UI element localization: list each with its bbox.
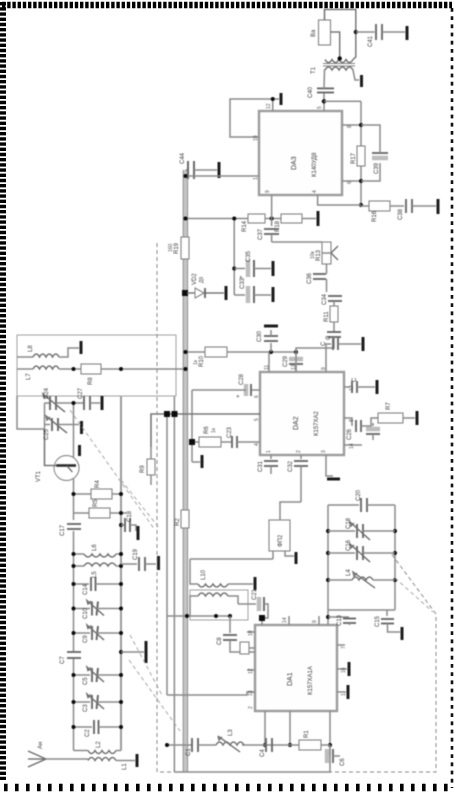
capacitor C2 (72, 720, 124, 737)
wire DA1 bottom grounds (337, 645, 349, 699)
capacitor C33 electrolytic (234, 277, 273, 303)
potentiometer R13 volume (310, 242, 338, 264)
trimmer C9 (72, 625, 124, 643)
wire DA2 pin14 (344, 444, 362, 446)
capacitor C30 with ground bar (257, 326, 278, 354)
wire detector to chain (296, 348, 334, 372)
trimmer C25 (44, 416, 82, 440)
wire L2 ends (74, 750, 122, 752)
capacitor C37 input coupling (258, 195, 279, 242)
wire oscillator main (17, 367, 188, 371)
capacitor C36 (307, 264, 327, 292)
capacitor C4 (260, 738, 272, 757)
capacitor C39 (361, 125, 388, 181)
IC DA3 (259, 111, 342, 195)
capacitor C27 with ground (78, 387, 102, 410)
capacitor C13 (328, 614, 356, 626)
capacitor C34 tone (322, 293, 342, 306)
wire DA1 right pins (289, 616, 319, 625)
trimmer C24 (43, 387, 84, 412)
IC DA2 (260, 372, 344, 455)
wire rail left drop (174, 745, 330, 772)
capacitor C34b (344, 418, 378, 440)
wire R10 branch (184, 350, 297, 354)
resistor divider R14 (184, 214, 266, 232)
capacitor C32 (288, 455, 308, 502)
wire input chain (165, 743, 332, 747)
wire DA1 pin stubs top (247, 632, 255, 692)
wire osc top link (17, 396, 45, 429)
capacitor C32a (321, 332, 341, 348)
capacitor C17 inline (60, 524, 81, 536)
capacitor C35 electrolytic (232, 217, 273, 296)
wire volume feed (272, 241, 322, 243)
wire gang bus B (120, 396, 122, 751)
wire rail AGC (167, 414, 255, 695)
resistor R16 (318, 195, 390, 222)
capacitor C38 with ground (390, 199, 438, 220)
capacitor C40 output coupling (308, 86, 334, 98)
wire DA3 output node (322, 93, 361, 112)
board outline dashed (157, 243, 436, 772)
wire filter output (280, 502, 301, 520)
coil shield box L7 L8 (17, 335, 176, 396)
trimmer C10 (72, 601, 124, 620)
wire IF frame bottom (393, 505, 397, 610)
wire IF frame top (326, 505, 330, 625)
ground L8 (59, 341, 81, 357)
wire L9 bottom (228, 596, 238, 604)
IC DA1 (255, 625, 337, 711)
inductor L3 variable (216, 729, 244, 752)
wire filter input (190, 551, 273, 559)
wire L9 top (190, 596, 198, 616)
transformer T1 (311, 60, 355, 75)
wire speaker loop (325, 10, 356, 60)
capacitor C29 detector (283, 350, 303, 372)
mech link dashed five (395, 578, 433, 612)
capacitor C19 to board edge (121, 548, 159, 571)
resistor R5 (74, 499, 128, 518)
capacitor C14 (72, 577, 124, 595)
wire speaker centre tap (330, 32, 342, 61)
ground near R6 (192, 455, 202, 468)
inductor L5 (72, 563, 124, 578)
resistor divider R18 (265, 211, 318, 232)
trimmer C3 (72, 694, 124, 712)
coil shield box L9 (190, 590, 248, 620)
inductor L8 (17, 345, 59, 357)
mech link dashed two (121, 480, 160, 529)
trimmer C16 (328, 539, 395, 562)
inductor L7 (26, 366, 59, 380)
wire supply rail +V thick (183, 170, 187, 772)
capacitor C33b with ground (326, 335, 363, 372)
resistor R11 (324, 306, 338, 332)
wire DA1 left pins (263, 711, 330, 747)
inductor L9 (198, 593, 228, 596)
resistor R8 (81, 364, 101, 385)
inductor L10 (198, 569, 228, 587)
loudspeaker BA1 (311, 20, 331, 45)
mech link dashed three (130, 635, 162, 695)
antenna WA1 (28, 742, 88, 767)
resistor R17 (351, 146, 365, 166)
mech link dashed four (129, 660, 180, 731)
ground VT1 collector (78, 445, 81, 456)
trimmer C18b (328, 517, 395, 540)
wire DA1 pin stub right (261, 621, 263, 625)
capacitor C28 AGC (192, 373, 260, 398)
capacitor C17b with ground (375, 610, 402, 640)
wire DA3 supply pin (184, 174, 260, 178)
capacitor C44 with ground (180, 152, 219, 179)
capacitor C24 gray (366, 423, 380, 440)
resistor R2 (175, 510, 189, 528)
wire IF feed (167, 614, 232, 618)
resistor R6 (195, 426, 221, 447)
capacitor C22 small (240, 642, 255, 654)
inductor L2 (88, 741, 116, 754)
wire R6 feed (189, 390, 195, 462)
resistor R9 (140, 447, 155, 485)
trimmer C5 (72, 667, 124, 685)
wire rail mid (173, 396, 175, 772)
resistor R7 (378, 402, 417, 425)
wire oscillator to mixer (151, 411, 260, 447)
wire bootstrap (342, 101, 363, 207)
pin numbers DA1 (248, 617, 347, 709)
capacitor C41 with ground (354, 24, 407, 47)
inductor L4 variable (328, 569, 395, 588)
resistor R4 (72, 480, 124, 499)
capacitor C20 frame right (328, 489, 395, 512)
capacitor C21 gray (238, 588, 268, 618)
inductor L6 (72, 544, 124, 557)
wire gang bus A (73, 403, 75, 751)
node divider tap (270, 217, 274, 221)
pin numbers DA3 (253, 103, 353, 193)
wire L10 top (190, 559, 198, 584)
ground transformer primary (353, 70, 362, 87)
resistor R1 (299, 730, 321, 750)
capacitor C6 electrolytic (327, 745, 346, 766)
capacitor C7 inline (60, 652, 81, 664)
feedback loop DA3 (230, 93, 281, 137)
wire IF frame left (328, 609, 395, 611)
wire DA2 pin11 to detector (268, 352, 270, 372)
ground filter (285, 551, 296, 564)
node junction square (259, 615, 265, 621)
resistor R10 (193, 347, 227, 367)
capacitor C8 (217, 616, 255, 652)
mech link dashed long (70, 410, 155, 530)
filter FP1 (269, 520, 290, 551)
inductor L1 (88, 758, 128, 771)
transistor VT1 (36, 429, 79, 482)
capacitor C31 (258, 455, 278, 474)
resistor R19 (168, 237, 189, 259)
diode VD2 branch (182, 273, 226, 300)
capacitor C1 (186, 738, 203, 756)
ground gang rotor (119, 641, 146, 663)
wire primary to C40 (324, 70, 325, 88)
ground DA2 pin3 (326, 455, 340, 479)
capacitor C23 (221, 426, 260, 448)
capacitor C18 with ground (119, 510, 138, 540)
pin numbers DA2 (254, 364, 355, 453)
ground L10 (228, 577, 255, 590)
capacitor C27a pin stub (344, 377, 377, 394)
ground L1 (116, 754, 137, 767)
